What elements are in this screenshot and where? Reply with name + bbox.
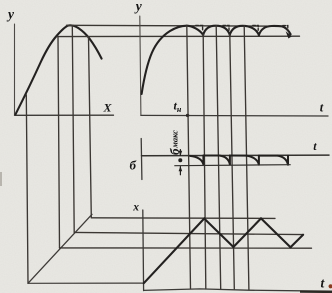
- dashed ideal corner mark 3: [253, 25, 258, 30]
- delta max dimension lower arrow: [179, 167, 181, 175]
- svg-text:б: б: [130, 158, 137, 173]
- error fin 2 top: [204, 155, 220, 157]
- svg-text:X: X: [103, 101, 113, 115]
- time grid vertical 5: [244, 26, 249, 290]
- t_n axis dot: [186, 114, 189, 117]
- scallop arc 3 wide: [259, 26, 291, 35]
- time grid vertical 3: [216, 26, 221, 289]
- error plot delta-axis: [140, 139, 143, 180]
- construction vertical D: [89, 37, 92, 218]
- error fin 4 top: [260, 155, 278, 157]
- transfer horizontal line through wave peaks: [91, 217, 275, 220]
- scallop end arrowhead: [286, 31, 292, 38]
- horizontal lower level line spanning both plots: [57, 35, 299, 37]
- construction vertical A from origin triangle: [26, 95, 28, 283]
- error fin 2 edge: [229, 155, 231, 164]
- delta max dimension upper arrow: [179, 150, 181, 156]
- left plot y-axis: [14, 24, 16, 115]
- error fin 3 edge: [258, 156, 260, 165]
- dashed ideal corner mark 4: [283, 26, 288, 31]
- paper grain: [0, 0, 1, 1]
- transfer horizontal bottom line: [28, 282, 144, 284]
- scallop arc 1: [203, 26, 230, 35]
- svg-text:y: y: [134, 0, 143, 13]
- error fin 2 curve: [220, 156, 230, 165]
- first scallop descent: [187, 26, 203, 35]
- svg-text:t: t: [320, 100, 324, 114]
- scallop arc 2: [230, 26, 259, 35]
- svg-text:y: y: [6, 6, 15, 21]
- transfer horizontal middle line: [74, 232, 303, 234]
- svg-text:x: x: [132, 202, 139, 214]
- bottom plot t-axis: [144, 289, 332, 291]
- left plot X-axis: [15, 114, 114, 116]
- dashed ideal corner mark 1: [196, 25, 203, 30]
- time grid vertical 1 (t_n): [187, 26, 191, 289]
- bottom plot speck after t: [329, 284, 332, 288]
- error plot lower reference line: [175, 165, 290, 166]
- 45 degree transfer diagonal: [28, 214, 92, 283]
- bottom plot x-axis vertical: [142, 210, 145, 291]
- scan edge darkening bottom-right: [300, 291, 332, 293]
- error fin 3 curve: [246, 156, 258, 165]
- transfer horizontal line through wave valleys: [60, 247, 312, 249]
- right plot t-axis: [141, 114, 328, 117]
- construction vertical C from curve peak: [72, 25, 74, 232]
- left plot curve y(X): [16, 25, 102, 114]
- right plot transient curve y(t): [142, 26, 187, 94]
- error fin 4 curve: [278, 156, 288, 165]
- time grid vertical 4: [230, 34, 235, 289]
- time grid vertical 2: [203, 34, 206, 289]
- horizontal max line (top) spanning both plots: [67, 24, 283, 27]
- error fin 1 curve: [190, 156, 203, 164]
- construction vertical B: [58, 37, 60, 248]
- error fin 1 edge: [202, 155, 204, 164]
- edge smudge left: [0, 172, 2, 186]
- error fin 3 top: [230, 155, 246, 157]
- delta max dimension dot: [178, 158, 182, 162]
- error fin 4 edge: [287, 156, 289, 165]
- input triangle wave x(t): [144, 218, 303, 283]
- error plot t-axis: [142, 154, 330, 157]
- right plot y-axis: [140, 16, 141, 115]
- dashed ideal corner mark 2: [223, 25, 229, 30]
